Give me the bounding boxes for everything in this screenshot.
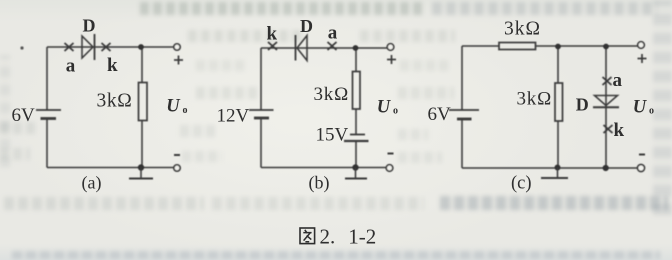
terminal: (b) output - circle	[386, 165, 393, 172]
battery 6V negative plate (c)	[457, 118, 472, 121]
resistor R 3kΩ vertical (c)	[555, 83, 563, 121]
diode D (c) triangle pointing down	[595, 96, 618, 106]
svg-text:k: k	[107, 55, 118, 76]
svg-text:k: k	[614, 120, 625, 141]
wire: (b) resistor branch upper	[355, 48, 357, 72]
battery 15V upper plate	[350, 134, 365, 136]
battery 6V negative plate	[41, 117, 57, 120]
svg-text:U: U	[377, 98, 392, 118]
wire: (a) bottom rail	[47, 167, 177, 169]
svg-text:a: a	[613, 70, 623, 91]
svg-text:3kΩ: 3kΩ	[504, 19, 541, 40]
svg-text:3kΩ: 3kΩ	[97, 90, 133, 111]
label: (b) minus sign	[388, 153, 394, 155]
wire: (a) left rail upper (to battery)	[46, 47, 48, 110]
wire: (b) left rail upper	[260, 48, 262, 110]
terminal mark × anode a of diode D (c)	[603, 77, 612, 85]
wire: (c) middle resistor branch	[557, 46, 559, 83]
node: (a) top junction	[138, 44, 144, 50]
svg-text:o: o	[393, 106, 398, 117]
ground symbol (b)	[345, 168, 367, 179]
terminal mark × anode a of diode D (a)	[65, 43, 74, 51]
svg-text:3kΩ: 3kΩ	[314, 84, 350, 105]
svg-text:a: a	[66, 56, 76, 77]
svg-text:3kΩ: 3kΩ	[517, 89, 553, 110]
node: (c) junction bottom of diode branch	[603, 165, 609, 171]
node: (c) junction bottom of resistor branch	[555, 165, 561, 171]
node: (a) bottom junction	[138, 164, 144, 170]
battery 15V lower plate	[344, 140, 369, 142]
wire: (c) middle resistor branch lower	[557, 121, 559, 168]
diode D (a) triangle	[82, 36, 93, 58]
svg-text:2.: 2.	[320, 224, 336, 248]
wire: (a) top rail	[47, 46, 177, 48]
resistor R 3kΩ (a)	[139, 83, 148, 121]
wire: (c) left rail lower	[461, 119, 463, 168]
wire: (c) bottom rail	[462, 167, 641, 169]
label: (c) plus sign	[638, 54, 647, 63]
terminal: (c) output + circle	[638, 42, 645, 49]
svg-text:D: D	[576, 94, 589, 114]
wire: (b) left rail lower	[260, 118, 262, 168]
ground symbol (c)	[541, 168, 568, 179]
stray mark left of circuit (a)	[20, 46, 23, 49]
wire: (a) resistor branch upper	[141, 47, 143, 83]
node: (b) top junction	[353, 45, 359, 51]
node: (c) junction top of diode branch	[603, 44, 609, 50]
svg-text:12V: 12V	[217, 105, 250, 126]
terminal mark × anode a of diode D (b)	[328, 42, 337, 50]
svg-text:D: D	[83, 15, 96, 35]
node: (c) junction top of resistor branch	[555, 44, 561, 50]
diode D (a) cathode bar	[94, 34, 96, 60]
battery 6V positive plate (c)	[449, 109, 479, 111]
svg-text:15V: 15V	[316, 125, 349, 146]
terminal: (a) output - circle	[174, 165, 180, 171]
battery 12V positive plate	[249, 109, 274, 111]
terminal: (a) output + circle	[174, 44, 180, 50]
diode D (b) cathode bar	[295, 35, 297, 61]
label: (a) minus sign	[174, 154, 180, 156]
svg-text:k: k	[267, 23, 278, 44]
svg-text:U: U	[633, 98, 648, 118]
svg-text:U: U	[166, 97, 181, 117]
label: (c) minus sign	[639, 154, 645, 156]
svg-text:a: a	[328, 22, 338, 43]
svg-text:(c): (c)	[511, 174, 532, 194]
terminal mark × cathode k of diode D (a)	[102, 43, 111, 51]
wire: (a) resistor branch lower	[141, 121, 143, 168]
wire: (b) battery to bottom rail	[355, 141, 357, 168]
diode D (b) triangle	[297, 36, 307, 61]
wire: (c) left rail upper	[461, 46, 463, 110]
terminal mark × cathode k of diode D (b)	[268, 42, 277, 50]
svg-text:o: o	[649, 106, 654, 117]
battery 12V negative plate	[254, 117, 269, 120]
terminal mark × cathode k of diode D (c)	[604, 125, 613, 133]
svg-text:6V: 6V	[428, 104, 452, 125]
svg-text:1-2: 1-2	[348, 224, 376, 248]
svg-text:6V: 6V	[12, 105, 36, 126]
ground symbol (a)	[129, 168, 153, 179]
wire: (c) top rail left segment	[462, 45, 499, 47]
wire: (c) top rail right segment	[536, 45, 642, 47]
node: (b) bottom junction	[352, 164, 358, 170]
wire: (a) left rail lower (from battery)	[46, 119, 48, 168]
svg-text:D: D	[300, 16, 313, 36]
label: (a) plus sign	[174, 56, 183, 65]
terminal: (b) output + circle	[387, 44, 394, 51]
wire: (c) diode branch	[605, 46, 607, 168]
wire: (b) bottom rail	[261, 167, 390, 169]
svg-text:o: o	[183, 105, 188, 116]
label: (b) plus sign	[387, 55, 396, 64]
svg-text:(a): (a)	[82, 173, 102, 194]
wire: (b) between resistor and 15V battery	[355, 109, 357, 135]
resistor R 3kΩ horizontal (c)	[499, 43, 536, 50]
terminal: (c) output - circle	[638, 165, 645, 172]
svg-text:(b): (b)	[309, 173, 330, 194]
wire: (b) top rail	[261, 47, 391, 49]
diode D (c) cathode bar	[593, 106, 619, 108]
battery 6V positive plate	[36, 109, 61, 111]
resistor R 3kΩ (b)	[353, 72, 361, 110]
caption: 图 character (drawn)	[300, 228, 315, 244]
